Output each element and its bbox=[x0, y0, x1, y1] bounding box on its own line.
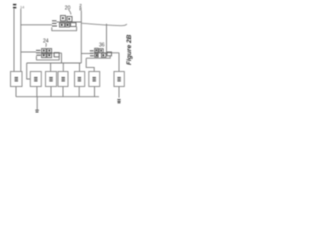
wire TC bottom rail bbox=[52, 30, 78, 32]
node dashes D3 bbox=[90, 51, 94, 56]
node label 12 bbox=[13, 5, 16, 8]
wire drop to mid-right circuit bbox=[106, 24, 108, 53]
wire bit line left bbox=[13, 9, 15, 72]
wire drop to cell C3 bbox=[50, 63, 52, 72]
memory cell C1 bbox=[11, 72, 23, 87]
wire stub C5 to bus bbox=[78, 87, 80, 97]
op-amp U20 top-center circuit bbox=[52, 16, 82, 31]
wire output tap bbox=[36, 97, 38, 110]
wire ML output to box4 bbox=[61, 53, 63, 63]
wire W1 to top-center circuit bbox=[21, 24, 52, 26]
wire MR output to box7 bbox=[118, 53, 120, 72]
memory cell C6 bbox=[89, 72, 100, 87]
memory cell C5 bbox=[75, 72, 85, 87]
wire lead 20 bbox=[69, 10, 72, 15]
node label 40 bbox=[35, 110, 38, 112]
svg-text:Figure 2B: Figure 2B bbox=[126, 34, 133, 65]
svg-text:36: 36 bbox=[99, 43, 105, 49]
node dashes D1 bbox=[52, 21, 57, 26]
memory cell C3 bbox=[46, 72, 57, 87]
wire stub C6 to bus bbox=[94, 87, 96, 97]
wire lead 24 bbox=[45, 43, 47, 47]
wire W4 bbox=[81, 53, 90, 55]
wire distribution W5 bbox=[27, 62, 82, 64]
wire common bus bbox=[16, 96, 99, 98]
wire stub C7 tail bbox=[118, 87, 120, 98]
wire stub C4 to bus bbox=[62, 87, 64, 97]
wire ML bottom rail bbox=[36, 59, 59, 61]
wire MR bottom rail bbox=[86, 57, 110, 59]
memory cell C7 bbox=[114, 72, 124, 87]
wire stub C2 through bus to tap bbox=[36, 87, 38, 97]
wire W2 to mid-left circuit bbox=[21, 51, 36, 53]
memory cell C2 bbox=[30, 72, 41, 87]
node dashes D2 bbox=[36, 50, 41, 55]
wire drop to cell C4 bbox=[62, 63, 64, 72]
wire W3 top right bbox=[81, 23, 127, 26]
wire bit line right bbox=[20, 9, 22, 72]
memory cell C4 bbox=[58, 72, 68, 87]
svg-text:14: 14 bbox=[20, 4, 25, 9]
op-amp U24 mid-left circuit bbox=[36, 49, 62, 60]
wire drop to cell C2 bbox=[27, 63, 31, 79]
op-amp U36 mid-right circuit bbox=[86, 48, 119, 58]
node label 42 bbox=[117, 100, 120, 103]
wire stub C1 to bus bbox=[15, 87, 17, 97]
wire long vertical V3 bbox=[80, 11, 82, 63]
wire drop to cell C6 bbox=[86, 58, 94, 71]
wire stub C3 to bus bbox=[50, 87, 52, 97]
wire drop to cell C5 bbox=[79, 63, 81, 72]
